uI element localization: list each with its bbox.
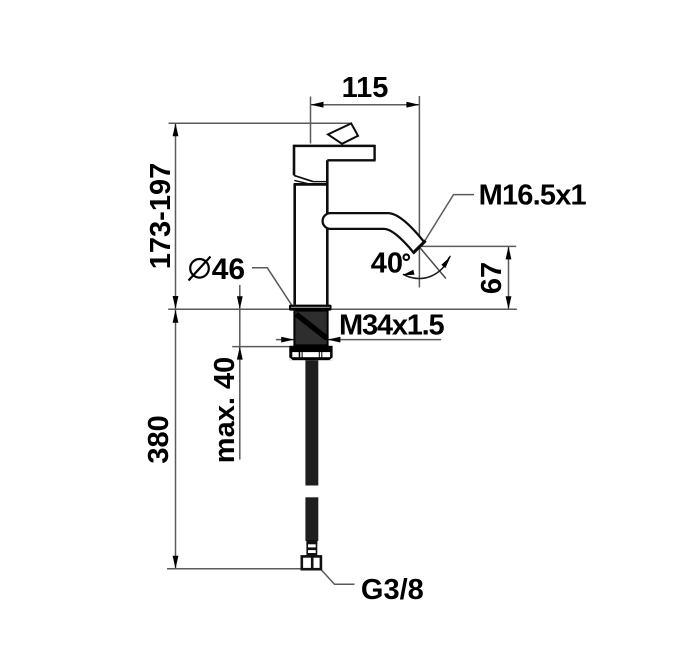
wire: leader Ø46 — [252, 268, 292, 305]
svg-text:67: 67 — [476, 262, 508, 294]
svg-text:40: 40 — [371, 247, 403, 279]
svg-text:G3/8: G3/8 — [361, 574, 424, 606]
arrow 40deg arc left end — [402, 270, 414, 275]
wire: leader G3/8 — [321, 569, 355, 584]
wire: max.40 dimension line — [239, 285, 241, 460]
faucet joint line — [294, 183, 328, 186]
shank diagonal stripe — [296, 314, 327, 339]
nut bottom corner bevels — [289, 357, 293, 360]
hose end connector — [307, 541, 316, 557]
svg-text:46: 46 — [212, 253, 245, 286]
faucet lever bar bottom edge — [327, 159, 375, 161]
arrow 115 right — [406, 102, 419, 108]
wire: 40 degree arc — [403, 257, 449, 278]
wire: 67 upper reference line (spout outlet level) — [422, 245, 517, 247]
arrow M34 left (points right) — [281, 337, 294, 343]
wire: leader M16.5x1 — [422, 195, 475, 247]
spout outlet face — [413, 241, 426, 254]
faucet head top edge — [294, 145, 375, 148]
nut facet white cells — [292, 352, 298, 357]
svg-text:M34x1.5: M34x1.5 — [339, 309, 445, 341]
wire: M34x1.5 dimension line right tail — [327, 339, 441, 341]
arrow 173-197 top — [173, 123, 179, 136]
faucet head/column right edge — [326, 160, 329, 304]
faucet head left edge — [293, 145, 296, 176]
wire: baseline countertop — [168, 308, 517, 310]
arrow M34 right (points left) — [327, 337, 340, 343]
wire: vertical dimension line 173-197 / 380 — [175, 123, 177, 569]
svg-text:max. 40: max. 40 — [209, 357, 241, 463]
arrow 173-197 bottom — [173, 296, 179, 309]
label diameter symbol — [190, 259, 209, 278]
wire: dimension line 67 — [508, 246, 510, 309]
faucet column left edge — [293, 184, 296, 305]
flange highlight — [291, 306, 330, 308]
flexible hose upper segment — [305, 360, 318, 485]
wire: extension line 115 left — [310, 97, 312, 144]
arrow 380 bottom — [173, 556, 179, 569]
wire: tick beyond arc end — [445, 256, 451, 268]
faucet lever bar right edge — [373, 145, 375, 161]
spout tube — [323, 213, 424, 253]
threaded shank block — [294, 311, 327, 346]
wire: extension line top of faucet (173-197 upper reference) — [169, 122, 351, 124]
flexible hose lower segment — [305, 497, 318, 541]
wire: extension line nut top (max.40 lower reference) — [232, 346, 295, 348]
faucet thin line above joint — [313, 181, 327, 183]
flange (base rosette) — [289, 305, 332, 311]
svg-text:380: 380 — [143, 415, 175, 463]
arrow max40 lower (points up to nut top) — [237, 347, 243, 360]
svg-text:173-197: 173-197 — [145, 163, 177, 269]
fixing nut — [289, 346, 332, 360]
arrow max40 upper (points down to baseline) — [237, 296, 243, 309]
arrow 115 left — [311, 102, 324, 108]
wire: dimension line 115 — [311, 104, 420, 106]
svg-text:M16.5x1: M16.5x1 — [479, 179, 587, 211]
knob (lever handle) — [328, 123, 358, 143]
svg-text:115: 115 — [342, 72, 389, 104]
faucet head bottom diagonal cut — [294, 175, 313, 181]
wire: M34x1.5 dimension line left tail — [276, 339, 294, 341]
arrow 67 top — [506, 246, 512, 259]
faucet wedge lower diagonal — [294, 180, 308, 183]
hose end nut G3/8 — [302, 556, 321, 569]
arrow 40deg arc right end — [441, 257, 450, 268]
wire: bottom reference line (hose end) — [167, 568, 302, 570]
arrow 380 top — [173, 310, 179, 323]
wire: extension line 115 right (long, down to spout tip) — [418, 96, 420, 288]
wire: 40 degree slope line — [420, 248, 446, 279]
arrow 67 bottom — [506, 296, 512, 309]
